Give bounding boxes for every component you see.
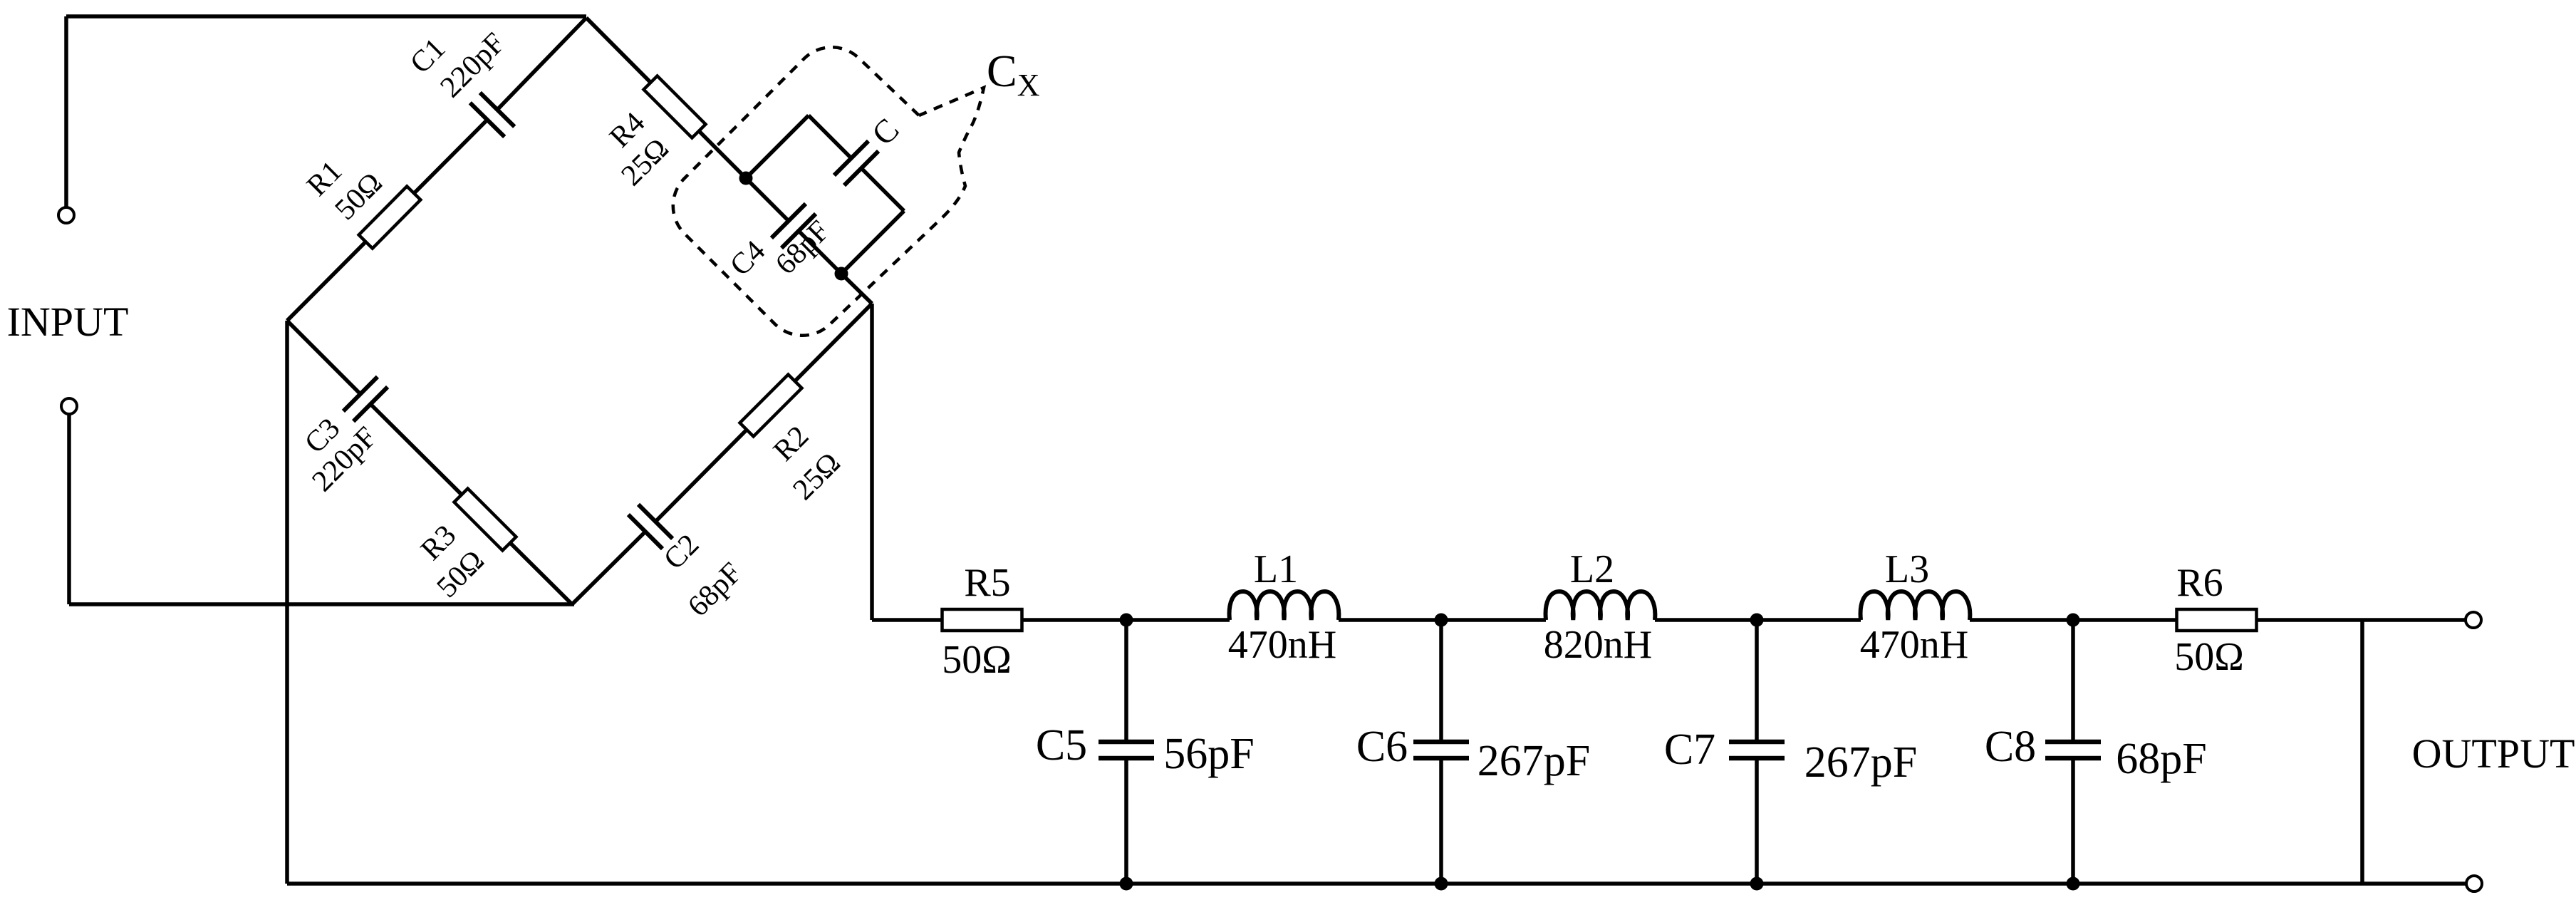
- svg-text:470nH: 470nH: [1860, 623, 1968, 667]
- svg-text:R5: R5: [964, 561, 1010, 605]
- svg-text:267pF: 267pF: [1477, 737, 1590, 785]
- svg-text:68pF: 68pF: [2116, 735, 2206, 783]
- svg-text:INPUT: INPUT: [7, 299, 129, 345]
- svg-text:470nH: 470nH: [1228, 623, 1336, 667]
- svg-text:56pF: 56pF: [1163, 730, 1254, 778]
- svg-text:267pF: 267pF: [1804, 738, 1917, 787]
- svg-text:50Ω: 50Ω: [942, 638, 1012, 682]
- svg-text:L3: L3: [1885, 547, 1929, 591]
- svg-text:50Ω: 50Ω: [2174, 635, 2244, 679]
- svg-text:C6: C6: [1356, 723, 1408, 771]
- svg-text:R6: R6: [2176, 561, 2223, 605]
- svg-text:L1: L1: [1254, 547, 1298, 591]
- svg-text:C5: C5: [1036, 721, 1087, 770]
- svg-text:OUTPUT: OUTPUT: [2412, 730, 2575, 777]
- svg-text:C8: C8: [1985, 723, 2036, 771]
- svg-text:820nH: 820nH: [1544, 623, 1652, 667]
- svg-text:L2: L2: [1570, 547, 1614, 591]
- svg-text:C7: C7: [1664, 725, 1715, 774]
